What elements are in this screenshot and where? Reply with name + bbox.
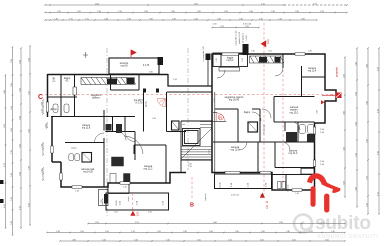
svg-text:2.85: 2.85 [295, 11, 299, 13]
svg-text:0.26 5.16: 0.26 5.16 [231, 195, 239, 197]
svg-text:h 1,00: h 1,00 [246, 34, 248, 40]
svg-text:3.95: 3.95 [28, 91, 30, 95]
svg-text:4.15: 4.15 [261, 3, 265, 5]
svg-text:2.20: 2.20 [309, 231, 313, 233]
svg-text:2.40: 2.40 [127, 18, 131, 20]
svg-text:3.60: 3.60 [4, 90, 6, 94]
svg-text:3.20: 3.20 [166, 239, 170, 241]
svg-text:3.20: 3.20 [134, 239, 138, 241]
window dim segment b [42, 142, 44, 156]
svg-text:2.30: 2.30 [331, 231, 335, 233]
svg-text:2.70: 2.70 [320, 11, 324, 13]
svg-text:2.50: 2.50 [157, 231, 161, 233]
svg-text:1.70: 1.70 [69, 18, 73, 20]
svg-text:2.95: 2.95 [224, 11, 228, 13]
wc fixtures cells [106, 124, 112, 131]
svg-text:veletta h 0,30: veletta h 0,30 [238, 31, 241, 44]
window dim segment a [42, 99, 44, 115]
svg-text:3.95: 3.95 [28, 129, 30, 133]
svg-text:mq 12,4: mq 12,4 [308, 71, 317, 73]
svg-text:1.90: 1.90 [366, 203, 368, 207]
svg-text:1.94: 1.94 [97, 11, 101, 13]
svg-text:1.20: 1.20 [242, 58, 244, 62]
svg-text:2.50: 2.50 [80, 231, 84, 233]
svg-text:bagno: bagno [244, 112, 251, 114]
red marker 10A [261, 40, 267, 47]
svg-text:3.90: 3.90 [343, 147, 345, 151]
svg-text:2.70: 2.70 [131, 231, 135, 233]
svg-text:2.40: 2.40 [249, 11, 253, 13]
svg-text:2.50: 2.50 [245, 26, 249, 28]
svg-text:10A: 10A [266, 39, 270, 44]
svg-text:2.80: 2.80 [19, 60, 21, 64]
watermark swirl logo [294, 215, 312, 233]
svg-text:3.90: 3.90 [343, 74, 345, 78]
upper small room right wing [213, 53, 248, 71]
svg-text:104: 104 [266, 204, 269, 209]
svg-text:3.20: 3.20 [102, 239, 106, 241]
corridor double wall x214.8 [214, 92, 216, 173]
svg-text:3.30: 3.30 [355, 122, 357, 126]
svg-text:3.95: 3.95 [4, 124, 6, 128]
svg-text:2.90: 2.90 [355, 92, 357, 96]
red circle R [218, 115, 223, 120]
svg-text:4.10: 4.10 [19, 206, 21, 210]
svg-text:2.40: 2.40 [271, 11, 275, 13]
svg-text:1.20: 1.20 [216, 58, 218, 62]
grey dash line vertical x184 [187, 48, 189, 170]
svg-text:4.70 0.45: 4.70 0.45 [243, 24, 252, 26]
svg-text:2.40: 2.40 [239, 18, 243, 20]
small fixtures bottom block [278, 182, 286, 189]
svg-text:h 2,70: h 2,70 [143, 65, 150, 67]
windows left wall [46, 102, 62, 180]
svg-text:2.60: 2.60 [235, 231, 239, 233]
svg-text:3.00: 3.00 [19, 88, 21, 92]
door gap wall x104 [103, 131, 106, 139]
red dashed section line B vertical [191, 177, 193, 200]
svg-text:3.00: 3.00 [19, 144, 21, 148]
svg-text:3.00: 3.00 [343, 181, 345, 185]
svg-text:3.10: 3.10 [355, 153, 357, 157]
shower bathroom left [82, 153, 92, 163]
svg-text:4.40: 4.40 [321, 222, 325, 224]
svg-text:2.05: 2.05 [95, 222, 99, 224]
svg-text:2.45: 2.45 [194, 18, 198, 20]
right dimension chain 4 [378, 47, 380, 215]
right dimension chain 1 [344, 56, 346, 198]
red dashed section line A vertical [263, 23, 265, 194]
svg-text:camera: camera [308, 67, 316, 70]
svg-text:mq 9,8: mq 9,8 [120, 66, 128, 68]
svg-text:2.50: 2.50 [105, 231, 109, 233]
red marker right wall [322, 95, 335, 97]
svg-text:4.00: 4.00 [28, 203, 30, 207]
svg-text:mq 11,8: mq 11,8 [82, 128, 91, 130]
edge mark 2 [0, 199, 4, 203]
svg-text:1.40: 1.40 [295, 193, 299, 195]
svg-text:3.70: 3.70 [28, 166, 30, 170]
svg-text:parapetto h: parapetto h [242, 33, 245, 43]
svg-text:2.60: 2.60 [209, 231, 213, 233]
svg-text:2.40: 2.40 [152, 118, 156, 120]
top small tick cluster [83, 52, 88, 58]
svg-text:2.80: 2.80 [72, 239, 76, 241]
svg-text:2.39: 2.39 [41, 109, 43, 113]
svg-text:4.30: 4.30 [377, 109, 379, 113]
svg-text:mq 6,2: mq 6,2 [227, 60, 235, 62]
svg-text:camera matr.: camera matr. [81, 168, 95, 171]
dim ticks near door [145, 101, 147, 107]
svg-text:prospetto: prospetto [336, 66, 339, 77]
top dimension chain 1 [44, 4, 285, 6]
outer walls right wing [212, 54, 336, 190]
svg-text:1.40: 1.40 [41, 169, 43, 173]
staircase [181, 122, 212, 160]
svg-text:2.90: 2.90 [28, 58, 30, 62]
svg-text:2.90: 2.90 [11, 59, 13, 63]
door element in wall x74 [73, 87, 76, 95]
svg-text:3.10: 3.10 [197, 239, 201, 241]
svg-text:13.95: 13.95 [116, 200, 118, 206]
svg-text:2.45: 2.45 [77, 11, 81, 13]
svg-text:3.50: 3.50 [325, 239, 329, 241]
svg-text:mq 11,2: mq 11,2 [289, 152, 298, 155]
svg-text:1.95: 1.95 [259, 18, 263, 20]
wall pier left of right wing [206, 54, 211, 61]
black line stubs near fan2 [213, 113, 226, 122]
bath fixtures hall [53, 104, 80, 161]
svg-text:0.26: 0.26 [260, 195, 264, 197]
shower left bathroom [248, 122, 258, 132]
svg-text:3.90: 3.90 [317, 110, 319, 114]
svg-text:2.60: 2.60 [183, 231, 187, 233]
svg-text:1.75: 1.75 [85, 18, 89, 20]
svg-text:R: R [219, 116, 222, 120]
edge mark 1 [0, 180, 4, 184]
svg-text:2.05: 2.05 [114, 211, 118, 213]
left dimension chain 2 [12, 46, 14, 236]
svg-text:2.50: 2.50 [11, 221, 13, 225]
red fan 1 [157, 99, 165, 107]
svg-text:2.05: 2.05 [11, 128, 13, 132]
red dashed 12A line [131, 193, 133, 211]
svg-text:0.90: 0.90 [149, 72, 153, 74]
svg-text:4.30: 4.30 [377, 67, 379, 71]
svg-text:13.35: 13.35 [220, 182, 222, 188]
svg-text:1.40: 1.40 [123, 187, 127, 189]
svg-text:2.90: 2.90 [19, 172, 21, 176]
svg-text:2.70: 2.70 [118, 11, 122, 13]
windows top wall right wing [222, 53, 305, 55]
bottom dimension chain 2 [46, 232, 346, 234]
red agency logo [307, 173, 340, 212]
svg-text:4.15: 4.15 [377, 192, 379, 196]
svg-text:2.55: 2.55 [11, 106, 13, 110]
interior walls left wing [48, 74, 213, 187]
right dimension chain 3 [367, 47, 369, 215]
svg-text:bagno: bagno [71, 148, 76, 150]
svg-text:pranzo: pranzo [92, 97, 100, 100]
svg-text:1.00: 1.00 [330, 95, 334, 97]
top dimension chain 2 [44, 12, 348, 14]
svg-text:ingresso: ingresso [205, 192, 207, 200]
svg-text:12A: 12A [136, 211, 140, 216]
svg-text:0.90: 0.90 [45, 124, 47, 128]
svg-text:4.30: 4.30 [377, 151, 379, 155]
svg-text:disimpegno: disimpegno [264, 123, 266, 134]
svg-text:asc.: asc. [182, 124, 186, 126]
svg-text:mq 15,1: mq 15,1 [290, 111, 299, 114]
svg-text:6.25: 6.25 [135, 222, 139, 224]
wc fixtures right bathroom [299, 125, 314, 134]
svg-text:1.06: 1.06 [173, 79, 177, 81]
svg-text:3.70: 3.70 [366, 176, 368, 180]
svg-text:2.90: 2.90 [301, 18, 305, 20]
svg-text:3.20: 3.20 [292, 239, 296, 241]
door arc bedroom [95, 133, 105, 143]
svg-text:1.06: 1.06 [268, 51, 272, 53]
door arcs [117, 68, 300, 154]
svg-text:2.40: 2.40 [217, 18, 221, 20]
svg-text:2.60: 2.60 [261, 231, 265, 233]
svg-text:2.80: 2.80 [171, 11, 175, 13]
svg-text:2.35: 2.35 [11, 150, 13, 154]
svg-text:balcone: balcone [288, 184, 290, 192]
kitchen counter left wing [81, 78, 136, 85]
red dashed section line vertical x283 [282, 56, 284, 185]
kitchen counter right wing [250, 56, 285, 63]
svg-text:4.10: 4.10 [4, 163, 6, 167]
door posts on wall y90 [143, 89, 146, 93]
top sub dimension line [211, 27, 260, 29]
svg-text:2.90: 2.90 [144, 11, 148, 13]
svg-text:3.60: 3.60 [343, 111, 345, 115]
svg-text:h. parapetto 1,00: h. parapetto 1,00 [202, 46, 205, 62]
interior walls right wing [213, 54, 325, 190]
left dimension chain 4 [29, 45, 31, 226]
svg-text:2.05: 2.05 [11, 83, 13, 87]
svg-text:3.80: 3.80 [355, 187, 357, 191]
balcony 2 [215, 174, 272, 189]
svg-text:3.80: 3.80 [366, 64, 368, 68]
red marker A104 bottom [260, 193, 265, 198]
windows right wall [313, 127, 315, 167]
svg-text:C: C [38, 94, 43, 101]
svg-text:camera: camera [82, 124, 90, 127]
furniture lower left rooms [110, 157, 130, 184]
outer walls left wing [48, 74, 187, 187]
svg-text:3.25: 3.25 [209, 150, 211, 154]
svg-text:mq 12,2: mq 12,2 [144, 168, 153, 171]
connecting wall between wings [168, 74, 212, 86]
svg-text:3.95: 3.95 [279, 222, 283, 224]
svg-text:mq 26,40: mq 26,40 [229, 99, 240, 102]
closet bottom-right corner [301, 168, 314, 174]
bottom dimension chain 3 [59, 240, 346, 242]
svg-text:2.40: 2.40 [308, 51, 312, 53]
svg-text:2.10: 2.10 [188, 166, 192, 168]
grey dash line vertical x107 [106, 48, 108, 218]
svg-text:3.20: 3.20 [260, 239, 264, 241]
red fan 2 [217, 113, 225, 121]
bottom dimension chain 1 [87, 223, 346, 225]
svg-text:mq 13,9: mq 13,9 [231, 149, 240, 152]
svg-text:3.80: 3.80 [366, 101, 368, 105]
right dimension chain 2 [356, 47, 358, 208]
red flag top left wing [131, 50, 136, 57]
window dim segment c [42, 167, 44, 181]
svg-text:2.48: 2.48 [104, 18, 108, 20]
svg-text:2.40: 2.40 [286, 231, 290, 233]
svg-text:2.40: 2.40 [149, 18, 153, 20]
window dim segment a2 [46, 122, 48, 129]
svg-text:2.35: 2.35 [11, 197, 13, 201]
left dimension chain 3 [20, 47, 22, 229]
svg-text:2.80: 2.80 [19, 116, 21, 120]
svg-text:1.40: 1.40 [41, 144, 43, 148]
svg-text:2.40: 2.40 [172, 18, 176, 20]
red marker 12A balcony [130, 211, 135, 216]
svg-text:3.30: 3.30 [355, 62, 357, 66]
top chain 1 dashed tail [284, 4, 347, 6]
svg-text:2.10: 2.10 [278, 18, 282, 20]
top dimension chain 3 [44, 19, 318, 21]
svg-text:terrazzo: terrazzo [120, 62, 129, 65]
terrace block top of left wing [109, 57, 163, 74]
svg-text:2.40: 2.40 [251, 51, 255, 53]
svg-text:9.55: 9.55 [194, 3, 198, 5]
svg-text:4.15: 4.15 [214, 98, 216, 102]
svg-text:2.30: 2.30 [56, 231, 60, 233]
svg-text:4.55: 4.55 [4, 204, 6, 208]
svg-text:2.20: 2.20 [57, 11, 61, 13]
duct shaft corridor [172, 121, 180, 130]
svg-text:3.10: 3.10 [228, 239, 232, 241]
balcony 1 [106, 193, 169, 210]
red dashed section line C horizontal [45, 94, 336, 96]
windows bottom walls [72, 182, 302, 191]
svg-text:9.40: 9.40 [213, 222, 217, 224]
svg-text:1.46: 1.46 [54, 18, 58, 20]
svg-text:h 2,70: h 2,70 [136, 102, 143, 105]
svg-text:4.35: 4.35 [148, 211, 152, 213]
svg-text:2.55: 2.55 [220, 26, 224, 28]
svg-text:mq 14,20: mq 14,20 [83, 172, 93, 174]
svg-text:2.90: 2.90 [197, 11, 201, 13]
svg-text:balcone: balcone [102, 198, 104, 206]
svg-text:0.90: 0.90 [41, 102, 43, 106]
svg-text:2.45: 2.45 [11, 173, 13, 177]
svg-text:parapetto h 1,00: parapetto h 1,00 [235, 30, 238, 45]
left dimension chain 1 [5, 74, 7, 229]
svg-text:disimp.: disimp. [50, 109, 58, 111]
entry strip [99, 183, 130, 206]
svg-text:B: B [190, 203, 194, 209]
balcony 2 openings in wall [225, 171, 271, 174]
svg-text:11.45: 11.45 [95, 3, 99, 5]
elevator shaft [183, 129, 201, 146]
svg-text:3.90: 3.90 [366, 139, 368, 143]
